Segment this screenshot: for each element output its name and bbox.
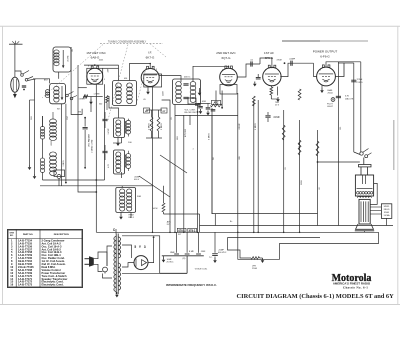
ground on 258.2 line [254, 82, 256, 84]
svg-text:SPKR.: SPKR. [384, 206, 390, 208]
svg-text:8MF: 8MF [170, 252, 175, 254]
scan artifact line top right [282, 40, 320, 42]
capacitor under V3 b [207, 103, 209, 107]
svg-text:.02MF: .02MF [289, 58, 296, 60]
antenna coil T1 secondary small winding [46, 90, 50, 93]
wire V5 right drop 1 [337, 90, 339, 226]
svg-text:LIGHT: LIGHT [327, 106, 334, 108]
power transformer T5 filament secondary [118, 263, 120, 290]
ground .25MF [214, 258, 216, 260]
wire AVC bus [146, 109, 162, 111]
capacitor on 338 line [336, 95, 341, 97]
svg-text:250Ω: 250Ω [328, 93, 333, 95]
oscillator coil C winding 2 [127, 189, 132, 194]
wire T3 primary bottom [174, 105, 176, 233]
svg-text:.1 MEG: .1 MEG [63, 160, 65, 167]
wire plug to transformer [107, 246, 112, 266]
power transformer T5 core [115, 234, 117, 295]
wire V4 grid cap [260, 58, 272, 68]
svg-text:8 MF: 8 MF [189, 251, 195, 253]
scan page fold line right [393, 120, 395, 170]
wire V1 plate stub [103, 67, 119, 69]
wire mid vertical 299.6 [299, 120, 301, 232]
wire bottom left join [30, 99, 35, 101]
oscillator coil A outer winding [126, 120, 130, 124]
svg-text:6-F6-G: 6-F6-G [320, 55, 330, 59]
svg-text:50M: 50M [177, 136, 179, 140]
on-off switch box [188, 98, 196, 104]
IF transformer T2 primary [116, 83, 122, 88]
AVC resistor R5 [150, 117, 153, 131]
RF coil L2 main winding [50, 119, 57, 124]
wire osc grid b [65, 104, 67, 183]
wire V4 cathode down [270, 86, 272, 87]
svg-text:CIRCUIT DIAGRAM (Chassis 6-1: CIRCUIT DIAGRAM (Chassis 6-1) MODELS 6T … [237, 293, 395, 300]
wire filter to B minus [186, 256, 188, 273]
wire grid bus drop [77, 65, 79, 186]
capacitor on 197.5 line [195, 103, 200, 105]
svg-text:OSC PADDER: OSC PADDER [88, 133, 91, 147]
component small box left [54, 170, 65, 177]
antenna coil T1 secondary winding [54, 86, 59, 91]
oscillator coil C winding 1 [120, 189, 125, 194]
switch SW2 band circles [66, 94, 69, 97]
svg-text:.0001: .0001 [99, 60, 104, 62]
pilot light [331, 98, 335, 102]
wire switch to T1 secondary [33, 79, 50, 84]
svg-text:I.F.: I.F. [148, 50, 152, 54]
svg-text:5 MEG: 5 MEG [209, 133, 211, 140]
wire staircase b [228, 238, 252, 259]
antenna coil T1 arrow [62, 50, 64, 66]
wire staircase a [238, 232, 379, 259]
label box chassis a [177, 228, 186, 232]
oscillator coil box C [116, 188, 136, 213]
svg-text:.01: .01 [285, 167, 287, 170]
page border left [2, 26, 4, 304]
wire V1 cathode down [95, 84, 97, 232]
wire mid vertical 317.5 [317, 130, 319, 226]
V3 base box [220, 85, 237, 95]
wire V4 grid resistor down [283, 110, 285, 232]
output transformer box [355, 175, 373, 196]
wire V1 grid cap bus [84, 64, 119, 66]
svg-text:7: 7 [265, 70, 266, 72]
svg-text:OSC: OSC [67, 115, 69, 120]
dashed link to oscillator tuning section [108, 45, 128, 121]
wire T1 right top vertical [71, 47, 82, 115]
wire V1 base bus [88, 96, 103, 98]
wire vertical 215.3 [214, 214, 216, 226]
svg-text:.006: .006 [239, 156, 241, 160]
svg-text:3: 3 [156, 69, 157, 71]
svg-text:25 VDC: 25 VDC [167, 261, 175, 263]
wire rectifier plate stub [122, 245, 132, 258]
wire rail H3 left [164, 213, 200, 215]
oscillator coil A winding [116, 120, 121, 125]
svg-text:COND: COND [357, 82, 364, 84]
AVC resistor R6 [157, 117, 160, 131]
svg-text:FIELD: FIELD [384, 209, 390, 211]
speaker bell base [356, 224, 374, 229]
antenna coil T1 secondary arrow [61, 86, 63, 98]
node antenna ground [14, 92, 16, 94]
page border right [397, 26, 399, 304]
svg-text:25 V: 25 V [275, 105, 280, 107]
wire osc grid a [61, 104, 63, 186]
svg-text:POWER OUTPUT: POWER OUTPUT [313, 50, 338, 54]
svg-text:456 KC: 456 KC [184, 77, 191, 79]
RF coil L3 main winding [50, 152, 57, 157]
wire V1 screen down [104, 84, 106, 110]
wire antenna lead-in [14, 44, 16, 77]
svg-text:DESCRIPTION: DESCRIPTION [54, 234, 69, 236]
wire T1 box bottom [58, 72, 60, 79]
ground V5 cathode [321, 88, 323, 90]
output transformer core lines [362, 175, 364, 184]
tube V2 6K7-G [141, 69, 159, 87]
svg-text:1ST DET OSC: 1ST DET OSC [86, 51, 106, 55]
wire mid vertical 104.5 extension [104, 110, 106, 180]
resistor below V1 right [106, 96, 109, 103]
svg-text:850Ω: 850Ω [384, 212, 389, 214]
wire coil C taps [121, 186, 123, 188]
svg-text:NO.: NO. [10, 235, 14, 237]
svg-text:.1-47MF: .1-47MF [108, 127, 110, 135]
svg-text:VOICE COIL: VOICE COIL [195, 268, 208, 270]
wire under V3 horizontal [198, 102, 211, 104]
svg-text:135: 135 [340, 127, 342, 130]
trimmer capacitors T3 [183, 83, 188, 85]
loop antenna L1 [11, 77, 19, 92]
svg-text:.02: .02 [319, 187, 321, 190]
wire T2 secondary top to V2 grid [130, 64, 151, 81]
tube V4 6F5-G [263, 67, 281, 85]
svg-text:470,000: 470,000 [185, 128, 187, 137]
wire V1 top cap stub [94, 64, 96, 67]
RF coil L2 small winding [40, 126, 44, 130]
ground bleeder [262, 258, 264, 260]
wire V2 screen jog [162, 100, 170, 232]
svg-text:1.7MM: 1.7MM [94, 94, 100, 96]
svg-text:TUNING CONDENSER ASSEMBLY: TUNING CONDENSER ASSEMBLY [108, 40, 147, 43]
wire mid join [43, 179, 105, 181]
wire V3 plate right [237, 64, 260, 77]
wire AVC drop [183, 115, 185, 232]
capacitor coupling V3 to V4 [250, 61, 252, 66]
svg-text:1A-B-77173: 1A-B-77173 [18, 283, 33, 287]
resistor on 299.6 line [298, 140, 301, 155]
wire switch to antenna coil [15, 71, 21, 74]
small component box mid [212, 100, 221, 104]
wire osc section vertical a [29, 100, 31, 165]
IF transformer T3 primary [176, 81, 182, 86]
antenna coil T1 shield box [53, 47, 71, 72]
antenna coil T1 secondary box [50, 83, 66, 103]
wire rail taps dots [152, 232, 154, 234]
svg-text:.1MF: .1MF [200, 251, 206, 253]
svg-text:AVC: AVC [167, 220, 172, 223]
wire bell to rail [364, 231, 366, 233]
wire rectifier to filter [160, 272, 187, 274]
wire output transformer right loop [370, 183, 377, 204]
svg-text:.1: .1 [193, 148, 195, 150]
svg-text:5: 5 [104, 79, 105, 81]
resistor on 299.6 upper [298, 89, 301, 100]
switch SW1 wave band [21, 74, 24, 77]
capacitor filter .1MF c [198, 232, 200, 253]
trimmer label box a [144, 108, 150, 113]
wire V5 right drop 3 [360, 62, 362, 153]
ground osc a [29, 165, 31, 167]
svg-text:2 MEG: 2 MEG [161, 123, 163, 130]
wire main rail H1 [96, 231, 378, 233]
tube V1 6A8-G [87, 68, 103, 84]
svg-text:470M: 470M [276, 60, 281, 62]
svg-text:456: 456 [124, 78, 127, 80]
oscillator coil B winding [116, 152, 121, 157]
ground V1 [90, 100, 92, 102]
capacitor on 258.2 line [256, 76, 261, 78]
speaker field label box [381, 204, 391, 219]
svg-text:4: 4 [222, 70, 223, 72]
wire mid vertical 212 [211, 108, 213, 214]
wire small box [58, 179, 60, 186]
wire padder vertical [84, 118, 86, 127]
wire rectifier output [148, 237, 154, 263]
svg-text:400 V: 400 V [134, 179, 140, 181]
ground V2 left [147, 87, 149, 90]
wire rectifier filament [122, 263, 134, 267]
wire speaker horizontal feed [318, 161, 360, 163]
svg-text:INTERMEDIATE FREQUENCY 456: INTERMEDIATE FREQUENCY 456 K.C. [166, 283, 217, 287]
svg-text:.05 MW: .05 MW [67, 55, 69, 62]
resistor diode load horizontal [211, 104, 223, 107]
IF transformer T3 secondary [190, 81, 196, 86]
wire osc section vertical b [34, 79, 36, 174]
svg-text:PAD 1: PAD 1 [129, 216, 136, 219]
wire mid horizontal 115 [175, 114, 238, 116]
wire mid vertical 253.8 [253, 100, 255, 232]
ground osc b [34, 174, 36, 176]
wire V5 grid in [314, 63, 317, 76]
wire 212 drop to H3 [211, 115, 213, 214]
svg-text:300: 300 [99, 104, 102, 106]
svg-text:DIAL LITE: DIAL LITE [345, 98, 354, 101]
wire diagonal AF 2 [139, 176, 170, 197]
ground T3 secondary stub [199, 88, 201, 91]
tube V5 6F6-G [317, 67, 336, 86]
speaker neck [360, 167, 362, 175]
capacitor under V3 a [200, 103, 202, 105]
AC plug [85, 258, 90, 260]
resistor on 253.8 line [252, 96, 255, 106]
wire V5 right drop 2 [353, 63, 355, 152]
wire T3 secondary to V3 grid [193, 66, 229, 82]
svg-text:350M: 350M [301, 180, 303, 185]
svg-text:6K7-G: 6K7-G [146, 56, 155, 60]
parts list table [8, 230, 83, 288]
svg-text:600 VDC: 600 VDC [218, 252, 227, 254]
RF coil L3 small winding [40, 158, 44, 162]
dashed link to IF trimmer [137, 68, 146, 102]
ground V4 cathode [277, 97, 279, 99]
svg-text:50 M: 50 M [153, 208, 158, 210]
oscillator coil box B [114, 150, 125, 174]
page border top [0, 25, 400, 27]
V1 shield box [87, 68, 103, 84]
svg-text:250Ω: 250Ω [252, 268, 257, 270]
tube V3 6Q7-G [220, 68, 238, 86]
resistor 1 MEG left of V1 [83, 95, 87, 98]
svg-text:BIAS: BIAS [328, 89, 333, 92]
svg-text:.00025: .00025 [51, 141, 53, 147]
svg-text:2 MEG: 2 MEG [149, 123, 151, 130]
wire V4 plate to V5 [280, 63, 313, 76]
label box chassis b [188, 228, 197, 232]
wire T5 HV to rectifier loop [122, 236, 160, 273]
antenna [9, 43, 23, 45]
svg-text:T.C.: T.C. [209, 257, 213, 259]
wire RF coil feed [42, 116, 44, 127]
capacitor .25MF 600VDC [214, 232, 216, 253]
resistor 50M mid [163, 186, 165, 203]
wire L2 links [42, 116, 44, 127]
wire V3 top cap [228, 66, 230, 68]
oscillator coil box A [114, 118, 125, 138]
tuning condenser assembly dashed outline [100, 43, 163, 45]
svg-text:4.7Ω: 4.7Ω [108, 164, 110, 168]
dashed link right [150, 44, 166, 57]
svg-text:6Q7-G: 6Q7-G [221, 56, 231, 60]
ground below coil A [117, 138, 119, 142]
capacitor .01MF [265, 115, 270, 117]
svg-text:FLT.: FLT. [167, 224, 171, 226]
resistor V4 cathode [270, 87, 273, 95]
ground under V3 b [207, 111, 209, 113]
wire V3 cathode drops [215, 91, 217, 106]
svg-text:.05M: .05M [202, 101, 207, 103]
wire coil A outer links [124, 121, 126, 134]
svg-text:(R): (R) [183, 258, 186, 260]
capacitor small under V3 c [211, 109, 216, 111]
wire V1 osc grid down [90, 97, 92, 113]
resistor on 317.5 line [316, 141, 319, 156]
capacitor tone condenser [351, 79, 356, 81]
wire speaker top feed [363, 158, 365, 165]
ground T5 bottom [116, 291, 118, 294]
capacitor below switch [22, 85, 26, 87]
wire V2 plate top right [159, 76, 181, 82]
wire diagonal AF 1 [160, 155, 187, 173]
wire V5 plate top [326, 62, 338, 90]
ground below coil C [120, 212, 122, 214]
capacitor osc padder [83, 127, 88, 129]
wire spkr field down [386, 218, 388, 225]
wire mid rail y185.8 [40, 185, 153, 187]
svg-text:30Ω: 30Ω [137, 196, 141, 198]
capacitor coupling C .02MF [290, 61, 292, 66]
fuse [103, 267, 108, 272]
power transformer T5 HV secondary [118, 237, 120, 258]
wire mid vertical 258.2 [257, 100, 259, 232]
capacitor filter 8MF a [176, 232, 178, 253]
svg-text:250M: 250M [163, 91, 165, 96]
fuse loop [94, 252, 107, 266]
wire V1 grid left [78, 87, 87, 89]
svg-text:PART NO.: PART NO. [23, 233, 34, 236]
wire V2 top cap [149, 64, 151, 69]
svg-text:.05: .05 [72, 49, 74, 52]
oscillator coil B outer winding [126, 153, 130, 158]
speaker spider bar [359, 165, 372, 167]
svg-text:2ND DET AVC: 2ND DET AVC [216, 51, 236, 55]
wire V2 cathode down [152, 87, 154, 232]
speaker adjuster screws [360, 152, 363, 155]
resistor on 283.7 line [282, 125, 285, 140]
wire coil B outer links [124, 155, 126, 168]
svg-text:Electrolytic Cond.: Electrolytic Cond. [42, 283, 64, 287]
ground under V3 a [200, 109, 202, 111]
svg-text:.05 MF: .05 MF [239, 123, 241, 130]
ground filter bus [163, 256, 165, 258]
wire vertical 199.5 [199, 214, 201, 232]
svg-text:6T6-2: 6T6-2 [189, 229, 196, 232]
wire mid vertical 237.8 [237, 93, 239, 232]
svg-text:.01: .01 [171, 117, 173, 120]
wire V1 plate to T2 primary [118, 65, 120, 80]
svg-text:1 MEG: 1 MEG [255, 123, 257, 130]
dashed link to antenna tuning section [42, 45, 103, 99]
svg-text:.01MF: .01MF [273, 116, 280, 119]
resistor bleeder [251, 257, 260, 260]
wire spkr field pins [370, 206, 381, 208]
svg-text:50 MA: 50 MA [384, 214, 390, 217]
svg-text:2M: 2M [213, 157, 215, 160]
wire B minus rail [122, 272, 187, 274]
wire bleeder [260, 257, 263, 259]
antenna coil T1 primary winding [54, 50, 59, 54]
svg-text:Chassis No. 6-1: Chassis No. 6-1 [343, 286, 368, 290]
trimmer label box b [161, 108, 167, 113]
svg-text:1 MEG: 1 MEG [79, 99, 86, 101]
svg-text:1 GANG COND: 1 GANG COND [91, 139, 94, 153]
output transformer winding dots [357, 192, 360, 195]
wire rail H2 [200, 225, 394, 227]
oscillator trimmer caps [102, 118, 107, 120]
IF transformer T2 shield box [113, 81, 137, 106]
IF transformer T3 shield box [173, 79, 201, 105]
svg-text:TONE: TONE [357, 79, 363, 81]
wire T5 top to rail [115, 229, 117, 234]
power transformer T5 primary winding [114, 237, 116, 292]
wire vol control drop [189, 115, 191, 125]
output transformer bumps row [358, 196, 372, 197]
speaker field coil [359, 199, 370, 224]
V2 shield box [144, 74, 162, 87]
page border bottom [0, 304, 400, 306]
wire rail H3 right [212, 213, 318, 215]
svg-text:2: 2 [320, 70, 321, 72]
svg-text:5 Y 3: 5 Y 3 [134, 245, 146, 249]
capacitor filter 8MF b [186, 232, 188, 253]
wire osc coils to tube [109, 96, 119, 118]
wire T3 secondary bottom down [197, 105, 199, 233]
svg-text:.05: .05 [143, 99, 146, 101]
wire V5 cathode [321, 85, 323, 88]
rectifier tube V6 5Y3 [134, 256, 148, 270]
wire V5 screen [335, 63, 344, 77]
